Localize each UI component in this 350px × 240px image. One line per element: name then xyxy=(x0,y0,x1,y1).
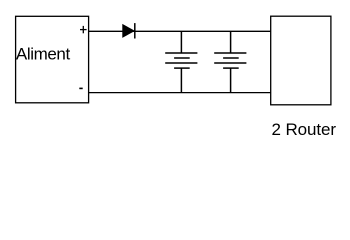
svg-text:2 Router: 2 Router xyxy=(272,120,337,139)
B1 plate long lower xyxy=(165,62,197,64)
B2 plate long lower xyxy=(214,62,246,64)
router box xyxy=(271,16,331,105)
battery B1 xyxy=(165,31,197,92)
wire top stub B2 xyxy=(230,31,232,53)
wire - rail (bottom) xyxy=(89,92,271,94)
wire bottom stub B1 xyxy=(180,68,182,93)
B2 plate short bottom xyxy=(223,67,239,69)
B1 plate short bottom xyxy=(174,67,190,69)
diode D1 xyxy=(123,23,135,38)
wire + rail (top) xyxy=(89,30,271,32)
wire bottom stub B2 xyxy=(230,68,232,93)
B1 plate long top xyxy=(165,52,197,54)
power supply box Aliment xyxy=(16,16,89,103)
minus terminal label xyxy=(79,87,82,89)
wire top stub B1 xyxy=(180,31,182,53)
B2 plate long top xyxy=(214,52,246,54)
svg-text:Aliment: Aliment xyxy=(16,45,71,64)
B2 plate short upper xyxy=(223,57,239,59)
plus terminal label xyxy=(80,26,87,33)
B1 plate short upper xyxy=(174,57,190,59)
battery B2 xyxy=(214,31,246,92)
